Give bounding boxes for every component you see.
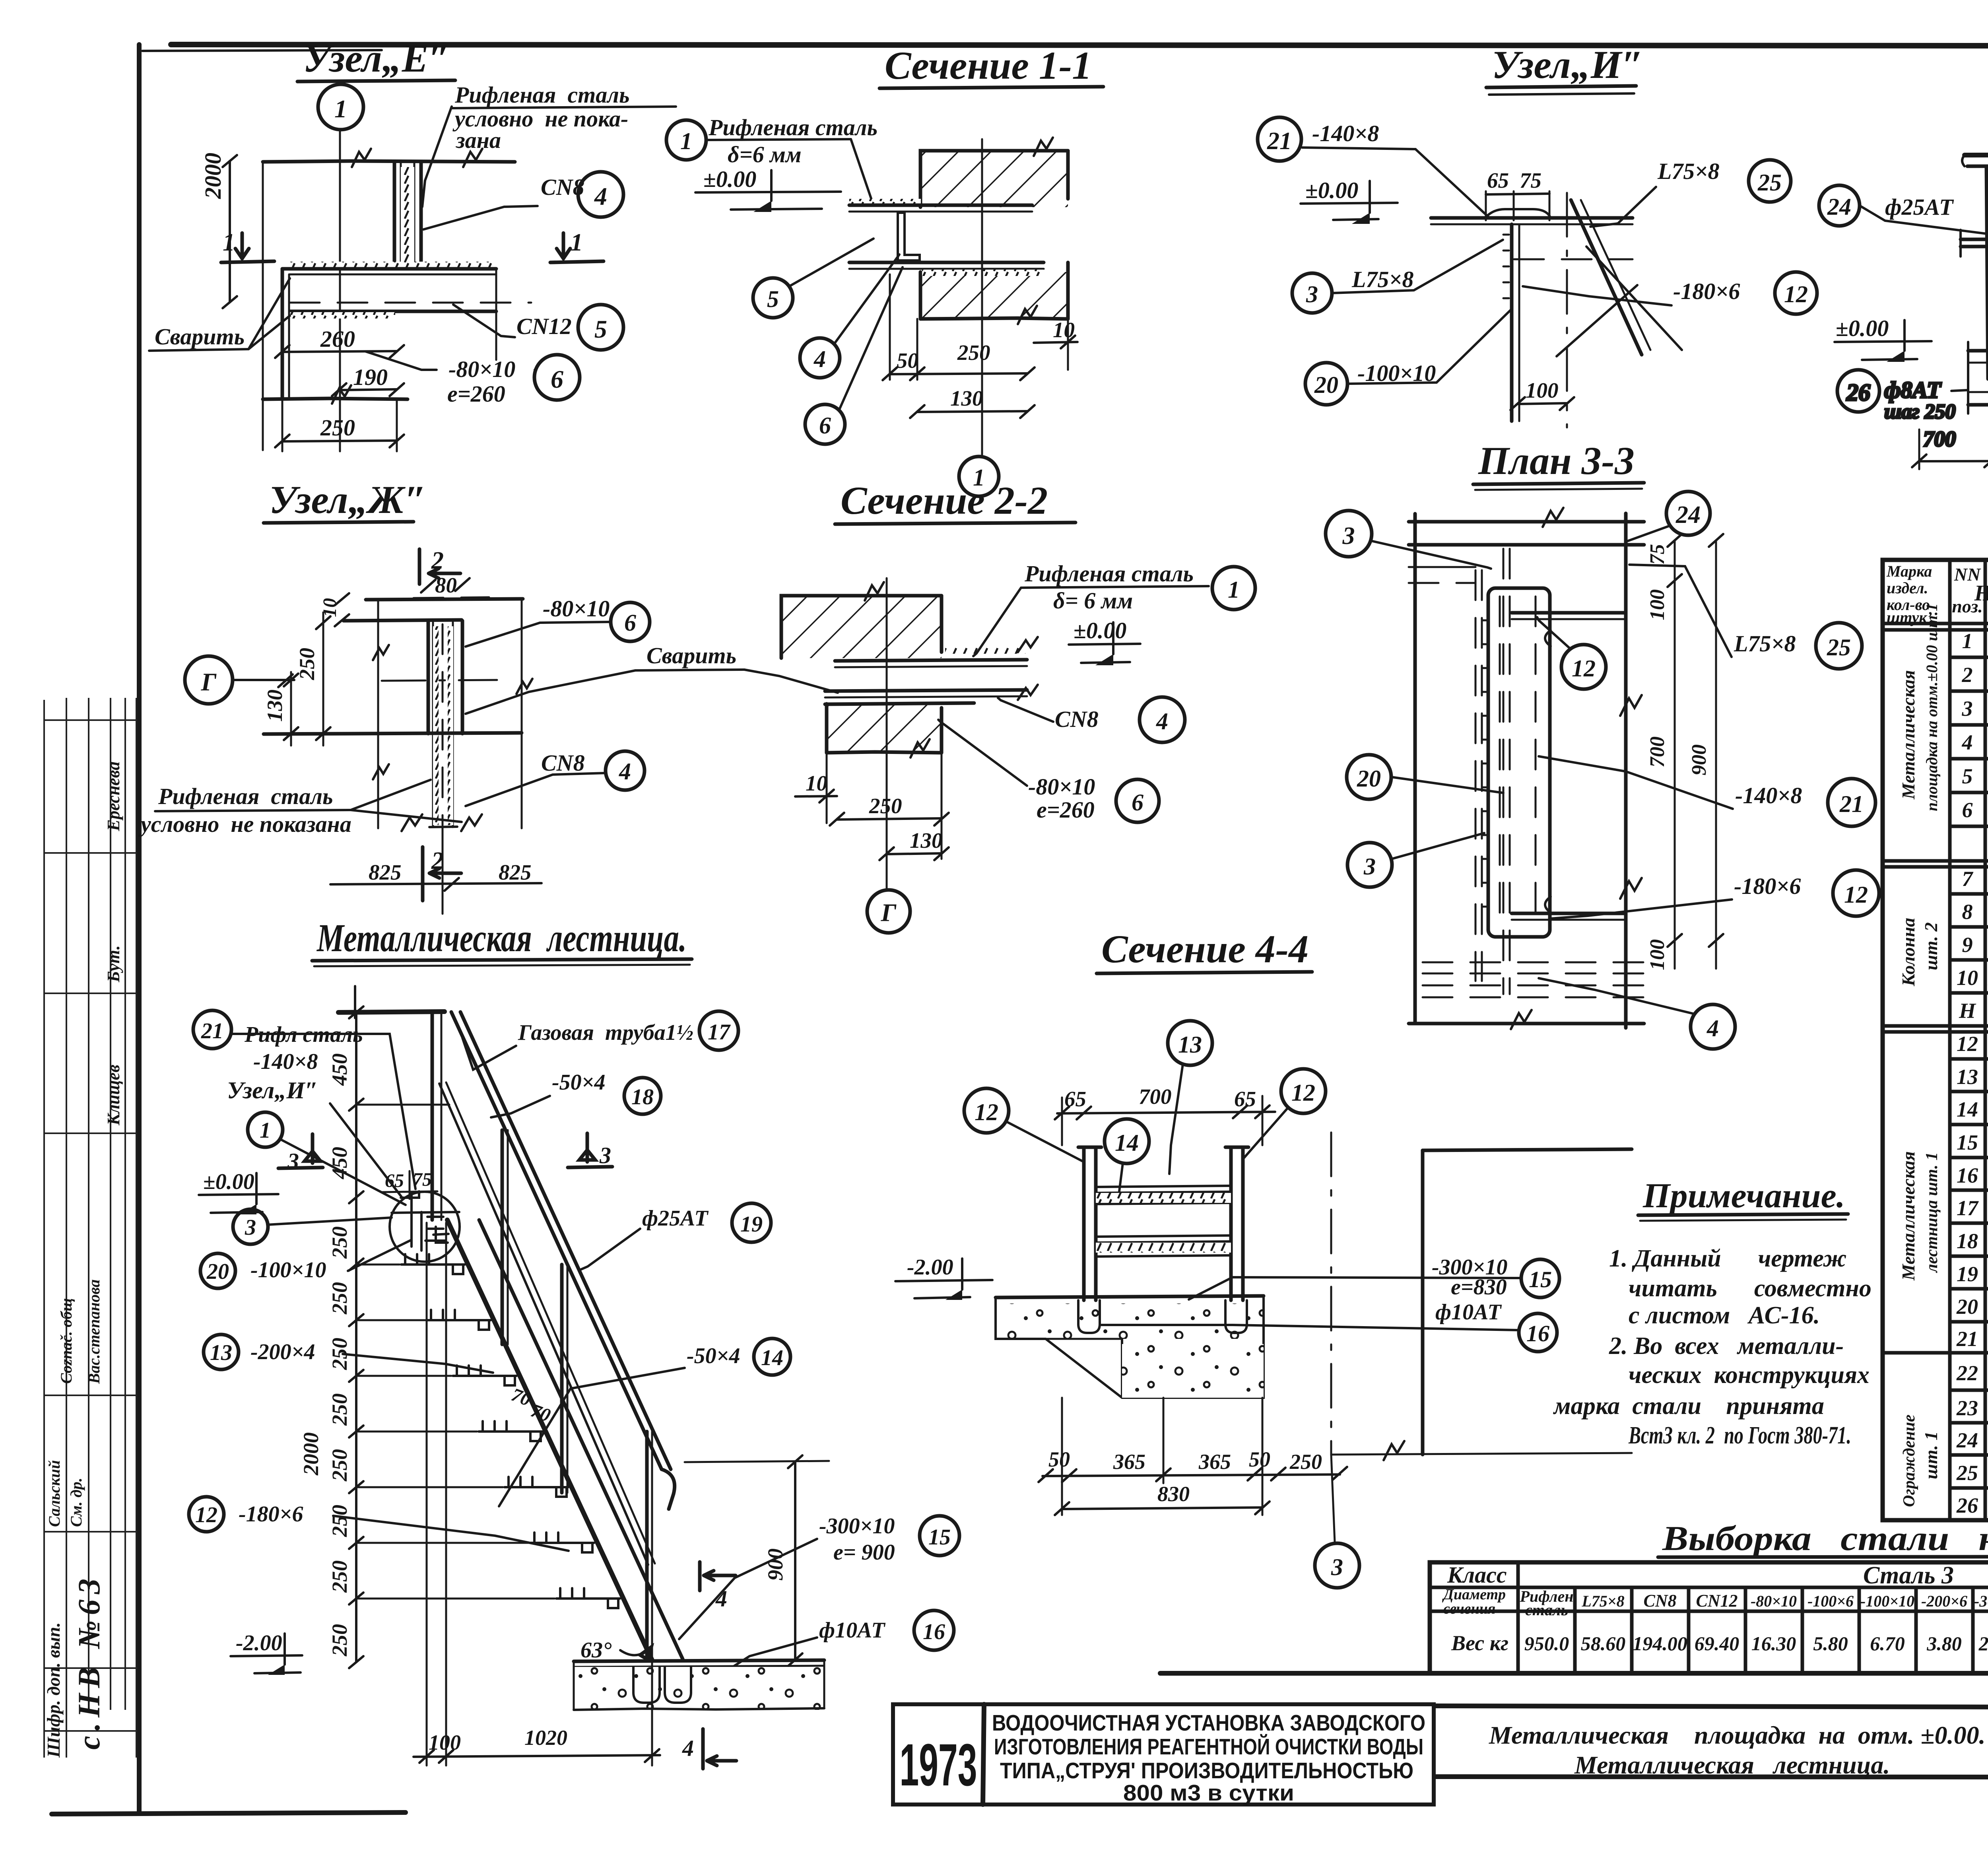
svg-text:L75×8: L75×8 [1734,631,1796,657]
svg-text:Рифленая сталь: Рифленая сталь [708,115,878,140]
svg-text:365: 365 [1198,1450,1231,1474]
circle 3 + L75x8 [1292,273,1332,313]
left column СН8 [281,269,284,398]
svg-text:Сталь 3: Сталь 3 [1863,1562,1954,1589]
svg-text:ф10АТ: ф10АТ [819,1618,886,1643]
svg-text:3: 3 [1331,1554,1343,1580]
svg-text:250: 250 [295,648,319,680]
treads [401,1254,620,1608]
circle 13 [204,1334,239,1369]
vertical dim chain [355,1012,357,1662]
svg-text:зана: зана [455,127,501,153]
lower bound line [263,398,408,399]
svg-text:Узел„Е″: Узел„Е″ [303,36,450,80]
circle 20 [200,1253,235,1288]
notes (Примечание) [1553,1177,1872,1449]
svg-text:5: 5 [1962,764,1973,788]
svg-text:СN8: СN8 [1643,1591,1676,1610]
sidebar rotated scribbles [45,761,123,1527]
svg-text:сечения: сечения [1443,1601,1495,1617]
section mark 1 right [562,233,565,258]
svg-text:Колонна: Колонна [1898,918,1918,987]
svg-text:6: 6 [819,412,831,439]
svg-text:-180×6: -180×6 [1734,873,1801,899]
svg-text:3: 3 [245,1215,256,1240]
floor slab with concrete [996,1296,1264,1298]
circle 5 [753,278,793,318]
U anchors [633,1667,660,1703]
svg-text:-180×6: -180×6 [239,1502,303,1527]
svg-text:Ограждение: Ограждение [1900,1414,1918,1507]
svg-text:14: 14 [761,1346,783,1370]
svg-text:700: 700 [1923,427,1956,451]
top horizontals [1409,520,1644,524]
svg-text:250: 250 [957,340,990,365]
svg-text:Сечение 2-2: Сечение 2-2 [841,478,1048,523]
masonry wall hatched (upper) [920,138,1068,324]
svg-text:Примечание.: Примечание. [1642,1177,1845,1215]
platform rail top [338,1012,445,1012]
bottom circle 1 [959,456,999,496]
svg-text:16: 16 [923,1620,945,1644]
svg-text:6.70: 6.70 [1870,1632,1905,1655]
svg-text:-100×10: -100×10 [1860,1592,1914,1610]
svg-text:Вас.степанова: Вас.степанова [85,1279,103,1384]
svg-text:±0.00: ±0.00 [703,166,756,192]
node detail circle (Узел И bubble) [390,1192,460,1262]
svg-text:-300×10: -300×10 [819,1514,895,1538]
circle Г [185,656,233,704]
anchors U below channels [1078,1300,1100,1333]
header text [1886,562,1932,626]
svg-text:4: 4 [1962,730,1973,754]
svg-text:250: 250 [328,1282,351,1315]
svg-text:-180×6: -180×6 [1673,278,1740,304]
circle 6 [805,404,845,444]
label ф25АТ circle 24 [1819,185,1860,226]
svg-text:24: 24 [1827,194,1851,220]
circles 12 L/R + 14 [964,1088,1009,1133]
svg-text:16: 16 [1957,1164,1978,1187]
svg-text:26: 26 [1846,379,1870,406]
vertical lines [1950,560,1988,1520]
svg-text:250: 250 [328,1624,351,1657]
sheet frame left border [137,45,142,1813]
svg-text:-80×10: -80×10 [1751,1592,1797,1610]
plate top [344,620,462,621]
svg-text:марка стали принята: марка стали принята [1553,1393,1824,1420]
right vertical [1624,513,1628,1028]
central plate component [1488,588,1550,937]
right dims [1674,541,1676,969]
svg-text:18: 18 [1957,1229,1978,1253]
svg-text:50: 50 [1249,1447,1270,1471]
svg-text:Наименования: Наименования [1974,581,1988,606]
mid rail [439,1084,648,1565]
svg-text:-140×8: -140×8 [253,1049,318,1074]
svg-text:3: 3 [287,1148,299,1174]
svg-text:Сoznač. общ: Сoznač. общ [57,1298,75,1384]
svg-text:План 3-3: План 3-3 [1478,439,1635,483]
svg-text:ф25АТ: ф25АТ [642,1206,709,1231]
svg-text:800 м3 в сутки: 800 м3 в сутки [1123,1780,1294,1806]
svg-text:Вес кг: Вес кг [1451,1631,1508,1655]
svg-text:900: 900 [1688,744,1710,775]
circle 4 bottom [1691,1004,1735,1049]
svg-text:1: 1 [1228,577,1240,603]
svg-text:издел.: издел. [1887,579,1928,597]
dashed line under beam [1514,258,1633,260]
svg-text:Шифр. доп. вып.: Шифр. доп. вып. [43,1622,64,1758]
circle 12 + -180x6 [1775,272,1817,314]
svg-text:Узел„Ж″: Узел„Ж″ [269,478,427,522]
svg-text:100: 100 [1526,378,1559,402]
svg-text:Узел„И″: Узел„И″ [1492,43,1644,87]
labels top-left [193,1010,231,1049]
svg-text:25: 25 [1956,1461,1978,1485]
centerline [886,578,888,891]
svg-text:площадка на отм.±0.00 шт.1: площадка на отм.±0.00 шт.1 [1923,603,1941,811]
svg-text:Металлическая лестница.: Металлическая лестница. [316,916,687,960]
svg-text:СN12: СN12 [516,313,572,339]
svg-text:Марка: Марка [1886,562,1932,580]
svg-text:250: 250 [328,1449,351,1482]
circle 20 + -100x10 [1305,363,1347,405]
svg-text:1: 1 [571,229,583,256]
svg-text:СN8: СN8 [1055,706,1099,732]
treads between [1096,1186,1231,1257]
svg-text:4: 4 [813,346,826,372]
svg-text:Металлическая площадка на: Металлическая площадка на отм. ±0.00. [1489,1721,1986,1749]
svg-text:Рифленая сталь: Рифленая сталь [1024,561,1194,587]
svg-text:Рифленая сталь: Рифленая сталь [158,783,333,809]
svg-text:-2.00: -2.00 [907,1255,953,1280]
svg-text:Г: Г [201,668,217,696]
rail post P0 [431,1012,434,1220]
svg-text:Сварить: Сварить [155,324,245,350]
svg-text:23: 23 [1956,1396,1978,1420]
svg-text:250: 250 [328,1226,351,1259]
svg-text:Металлическая лестница.: Металлическая лестница. [1574,1751,1890,1779]
circle 24 top-right [1666,491,1710,535]
section mark 2 top [418,549,421,584]
svg-text:9: 9 [1962,933,1973,957]
svg-text:1020: 1020 [524,1726,567,1750]
row26 sketch [1988,1490,1988,1520]
svg-text:700: 700 [1646,736,1669,767]
svg-text:ТИПА„СТРУЯ' ПРОИЗВОДИТЕЛЬНОСТЬ: ТИПА„СТРУЯ' ПРОИЗВОДИТЕЛЬНОСТЬЮ [1000,1758,1413,1783]
svg-text:-50×4: -50×4 [552,1070,606,1095]
svg-text:130: 130 [263,690,287,722]
svg-text:1: 1 [334,95,347,123]
svg-text:450: 450 [328,1053,351,1086]
svg-text:ВОДООЧИСТНАЯ УСТАНОВКА ЗАВОДСК: ВОДООЧИСТНАЯ УСТАНОВКА ЗАВОДСКОГО [992,1710,1425,1736]
svg-text:12: 12 [195,1503,217,1527]
svg-text:-2.00: -2.00 [236,1631,282,1655]
ground and concrete [574,1660,824,1661]
svg-text:130: 130 [950,386,983,410]
svg-text:830: 830 [1157,1482,1190,1506]
svg-text:12: 12 [1291,1080,1315,1106]
node small parts [392,1191,459,1251]
stair handrail [451,1012,662,1469]
svg-text:5.80: 5.80 [1813,1632,1848,1655]
svg-text:ф10АТ: ф10АТ [1435,1300,1502,1325]
svg-text:-300×10: -300×10 [1974,1592,1988,1610]
svg-text:250: 250 [328,1393,351,1426]
row lines [1883,657,1988,1488]
svg-text:24: 24 [1956,1428,1978,1452]
svg-text:80: 80 [435,573,457,597]
title block [893,1704,1988,1806]
dim 250 vertical [322,612,324,746]
dim 700 x5 [1919,402,1988,469]
svg-text:14: 14 [1115,1130,1139,1156]
diagonal braces [1571,200,1642,355]
svg-text:50: 50 [897,348,918,373]
svg-text:4: 4 [1156,708,1168,734]
small plates top/bottom [1512,611,1624,615]
svg-text:17: 17 [1957,1196,1979,1220]
subcolumn dividers [1575,1562,1988,1673]
svg-text:L75×8: L75×8 [1657,158,1719,184]
circle 12 mid [1561,645,1606,689]
svg-text:4: 4 [594,182,607,210]
svg-text:3: 3 [599,1142,611,1168]
header lines [1883,588,1988,630]
bottom dashed horizontals [1423,962,1644,997]
platform band with rebars [1968,350,1988,351]
svg-text:365: 365 [1113,1450,1145,1474]
svg-text:63°: 63° [580,1638,612,1663]
svg-text:26: 26 [1956,1494,1978,1517]
plate verticals [427,621,430,734]
svg-text:13: 13 [1957,1065,1978,1089]
svg-text:с листом АС-16.: с листом АС-16. [1629,1302,1820,1329]
svg-text:2: 2 [1962,663,1973,687]
svg-text:-100×10: -100×10 [250,1258,326,1282]
svg-text:75: 75 [1520,168,1541,192]
svg-text:Газовая труба1½: Газовая труба1½ [518,1020,693,1045]
long extension verticals [426,1223,428,1766]
sheet frame top border [171,45,1988,46]
svg-text:16.30: 16.30 [1751,1632,1796,1655]
beam edge dashed left [1409,566,1475,568]
svg-text:194.00: 194.00 [1633,1632,1687,1655]
svg-text:См. др.: См. др. [67,1478,85,1527]
svg-text:2. Во всех металли-: 2. Во всех металли- [1609,1332,1844,1360]
center dash-dot [382,680,497,681]
leader circle 1 [666,120,706,160]
svg-text:3: 3 [1363,853,1376,880]
svg-text:Металлическая: Металлическая [1898,1151,1918,1281]
circle 3 [233,1209,268,1244]
svg-text:22: 22 [1956,1361,1978,1385]
svg-text:21: 21 [1956,1327,1978,1351]
table body rows [1956,629,1988,1520]
svg-text:10: 10 [806,771,827,795]
svg-text:ВстЗ кл. 2 по Гост 380-71.: ВстЗ кл. 2 по Гост 380-71. [1628,1422,1851,1449]
beam lines [945,647,1025,654]
svg-text:Сечение 1-1: Сечение 1-1 [885,43,1092,87]
svg-text:4: 4 [1706,1015,1719,1041]
svg-text:21: 21 [1267,128,1292,155]
svg-text:5: 5 [594,315,607,343]
centerline from circle 1 [339,130,341,451]
svg-text:250: 250 [328,1560,351,1593]
svg-text:21: 21 [201,1019,223,1043]
circle 1 + 3 mark [248,1112,283,1147]
svg-text:Металлическая: Металлическая [1898,670,1918,800]
svg-text:ф8АТ: ф8АТ [1884,377,1942,403]
svg-text:Рифленая сталь: Рифленая сталь [454,82,629,108]
svg-text:сталь: сталь [1525,1601,1568,1619]
svg-text:4: 4 [682,1735,694,1761]
svg-text:250: 250 [328,1505,351,1537]
svg-text:шаг 250: шаг 250 [1884,400,1956,423]
svg-text:Клищев: Клищев [104,1064,123,1126]
svg-text:1973: 1973 [900,1731,977,1798]
svg-text:130: 130 [910,828,943,853]
wall hatch [781,596,942,658]
svg-text:18: 18 [631,1085,654,1109]
svg-text:-200×4: -200×4 [250,1340,315,1364]
svg-text:4: 4 [619,758,631,785]
svg-text:ИЗГОТОВЛЕНИЯ РЕАГЕНТНОЙ ОЧИСТК: ИЗГОТОВЛЕНИЯ РЕАГЕНТНОЙ ОЧИСТКИ ВОДЫ [994,1734,1423,1760]
beam channel СН12 [282,267,496,271]
svg-text:±0.00: ±0.00 [203,1169,254,1194]
svg-text:читать совместно: читать совместно [1629,1275,1872,1302]
svg-text:5: 5 [767,286,779,312]
bottom frame line over title block [1160,1671,1988,1676]
svg-text:14: 14 [1957,1097,1978,1121]
svg-text:-140×8: -140×8 [1312,120,1379,146]
channel cross-section [898,213,920,260]
svg-text:58.60: 58.60 [1581,1632,1626,1655]
svg-text:-80×10: -80×10 [1028,774,1095,800]
svg-text:±0.00: ±0.00 [1074,618,1126,643]
beam horizontal: riffled plate + flanges [849,199,921,205]
svg-text:L75×8: L75×8 [1581,1592,1624,1610]
svg-text:Сальский: Сальский [45,1460,63,1527]
svg-text:-200×6: -200×6 [1921,1592,1967,1610]
svg-text:е= 900: е= 900 [833,1540,895,1565]
svg-text:3: 3 [1342,523,1355,550]
svg-text:75: 75 [1646,544,1669,565]
circle 26 + ф8АТ шаг250 [1837,370,1879,412]
svg-text:12: 12 [1572,655,1596,682]
svg-text:лестница шт. 1: лестница шт. 1 [1923,1152,1941,1273]
svg-text:е=260: е=260 [447,381,505,407]
svg-text:24: 24 [1675,501,1701,528]
svg-text:12: 12 [975,1099,998,1125]
channel posts [1078,1147,1248,1300]
posts [1986,165,1988,379]
svg-text:1: 1 [680,128,692,154]
flange horizontal [264,733,522,734]
svg-text:20: 20 [1956,1295,1978,1319]
svg-text:Бут.: Бут. [104,945,123,983]
dim 250 [282,399,283,451]
project name stencil text [992,1710,1425,1806]
left sidebar stamp column [44,698,136,1758]
svg-text:Ереснева: Ереснева [104,761,123,831]
svg-text:21: 21 [1839,791,1864,817]
svg-text:100: 100 [1646,589,1669,620]
plate bottom + breaks [429,827,457,827]
svg-text:ческих конструкциях: ческих конструкциях [1629,1362,1870,1389]
extension verticals [377,600,379,828]
svg-text:Н: Н [1959,999,1976,1023]
svg-text:СN8: СN8 [541,750,585,776]
svg-text:950.0: 950.0 [1524,1632,1569,1655]
left verticals [1413,514,1417,1024]
svg-text:13: 13 [210,1340,232,1365]
svg-text:2000: 2000 [299,1432,323,1476]
svg-text:13: 13 [1178,1031,1202,1058]
svg-text:70: 70 [509,1384,534,1410]
dim 130 vertical [290,672,292,746]
svg-text:6: 6 [551,365,563,393]
right 3 mark [586,1133,589,1162]
svg-text:3: 3 [1306,281,1318,307]
svg-text:825: 825 [369,860,402,884]
svg-text:Сварить: Сварить [646,643,736,668]
circle Г bottom [867,890,910,933]
centerline [981,139,983,457]
outer box [1883,560,1988,1520]
bottom-left partial frame line [52,1812,406,1814]
svg-text:-50×4: -50×4 [687,1344,740,1368]
svg-text:-140×8: -140×8 [1735,783,1802,808]
svg-text:1: 1 [260,1118,271,1143]
svg-text:17: 17 [708,1020,731,1045]
svg-text:-100×6: -100×6 [1807,1592,1854,1610]
svg-text:L75×8: L75×8 [1351,266,1413,292]
svg-text:8: 8 [1962,900,1973,924]
svg-text:250: 250 [1289,1450,1322,1474]
svg-text:-80×10: -80×10 [448,356,515,382]
svg-text:16: 16 [1526,1321,1549,1346]
svg-text:СN12: СN12 [1696,1591,1738,1610]
svg-text:2000: 2000 [200,153,226,199]
svg-text:±0.00: ±0.00 [1305,177,1358,203]
svg-text:12: 12 [1844,882,1868,908]
dash-dot vertical and context wall [1330,1132,1332,1455]
4 section marker mid [698,1562,702,1591]
svg-text:δ= 6 мм: δ= 6 мм [1053,588,1133,614]
extension verticals [262,163,264,450]
svg-text:Класс: Класс [1447,1562,1507,1588]
svg-text:Выборка стали на все изде: Выборка стали на все изделия. [1662,1519,1988,1558]
svg-text:е=260: е=260 [1037,797,1095,823]
beam horizontals [1431,216,1633,220]
svg-text:1: 1 [223,229,235,256]
vertical channel (stringer top) [393,162,396,269]
svg-text:шт. 2: шт. 2 [1921,922,1941,970]
circle 20 [1347,755,1391,799]
posts [501,1130,504,1344]
svg-text:69.40: 69.40 [1695,1632,1739,1655]
dash-dot vertical [1566,193,1568,427]
svg-text:50: 50 [1048,1447,1070,1471]
svg-text:25: 25 [1827,634,1851,660]
svg-text:шт. 1: шт. 1 [1921,1431,1941,1479]
bent plate hump [1485,209,1551,218]
svg-text:15: 15 [928,1525,951,1550]
svg-text:20: 20 [1357,765,1381,792]
svg-text:Г: Г [881,898,897,927]
